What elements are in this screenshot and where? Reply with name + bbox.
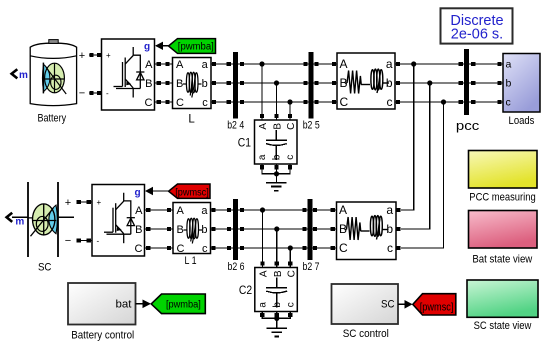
block PCC measuring: [469, 151, 538, 189]
svg-text:A: A: [258, 270, 269, 277]
wire bus b2 7 to branch Z2 phase B: [313, 227, 337, 231]
bus bar b2 4: [227, 52, 244, 131]
svg-text:a: a: [257, 302, 268, 308]
junction node riser-c: [441, 99, 446, 104]
wire battery - to converter: [79, 87, 102, 99]
wire branch Z1 to bus pcc phase a: [395, 62, 464, 66]
svg-text:[pwmsc]: [pwmsc]: [420, 301, 454, 313]
svg-text:Loads: Loads: [509, 115, 535, 127]
port m of Battery (unconnected output arrow): [12, 69, 28, 81]
wire bus b2 5 to branch Z1 phase B: [314, 81, 338, 85]
wire converter2 to L1 phase A: [145, 208, 174, 212]
svg-text:c: c: [506, 97, 511, 109]
junction node C2-C tap: [288, 245, 293, 267]
svg-text:bat: bat: [116, 298, 132, 310]
svg-text:B: B: [145, 78, 152, 90]
svg-text:m: m: [15, 217, 24, 228]
svg-text:-: -: [106, 89, 109, 98]
svg-text:c: c: [202, 243, 208, 255]
svg-text:+: +: [65, 197, 71, 209]
bus bar b2 6: [228, 199, 245, 273]
wire bus b2 4 to bus b2 5 phase A: [238, 62, 309, 66]
block SC state view: [467, 280, 538, 317]
svg-text:Battery control: Battery control: [71, 330, 134, 342]
svg-text:SC: SC: [381, 299, 395, 311]
wire bus b2 6 to bus b2 7 phase B: [238, 227, 308, 231]
wire bus b2 7 to branch Z2 phase A: [313, 208, 337, 212]
svg-text:b2 6: b2 6: [228, 261, 245, 273]
three-phase series RL branch Z1: [337, 53, 395, 109]
svg-text:C1: C1: [238, 138, 251, 150]
wire C2 outputs to ground junction: [260, 312, 292, 329]
svg-text:b: b: [202, 78, 208, 90]
svg-text:a: a: [386, 203, 393, 217]
wire riser from Z2 a: [396, 64, 413, 212]
svg-text:c: c: [285, 302, 296, 307]
wire L1 to bus b2 6 phase a: [211, 208, 234, 212]
block Battery control: [68, 283, 136, 325]
wire C1 outputs to ground junction: [260, 164, 292, 183]
svg-text:A: A: [339, 203, 347, 217]
wire SC - to converter2: [65, 235, 92, 247]
inductor block L: [173, 58, 212, 110]
wire bus b2 5 to branch Z1 phase A: [314, 62, 338, 66]
annotation Discrete 2e-06 s.: [441, 8, 513, 43]
svg-text:g: g: [134, 187, 140, 198]
svg-text:C: C: [340, 95, 349, 109]
svg-text:PCC measuring: PCC measuring: [469, 192, 535, 204]
svg-text:c: c: [387, 95, 393, 109]
svg-text:b: b: [272, 302, 283, 308]
wire bus b2 7 to branch Z2 phase C: [313, 246, 337, 250]
svg-text:[pwmba]: [pwmba]: [166, 299, 201, 311]
svg-text:A: A: [135, 205, 143, 217]
svg-text:a: a: [386, 57, 393, 71]
ground G2: [266, 328, 287, 336]
converter U2 (SC IGBT bridge): [92, 185, 145, 257]
svg-text:a: a: [201, 205, 208, 217]
svg-text:a: a: [257, 154, 268, 160]
wire branch Z1 to bus pcc phase c: [395, 100, 464, 104]
goto tag [pwmsc] from SC control: [398, 294, 456, 315]
wire bus b2 5 to branch Z1 phase C: [314, 100, 338, 104]
svg-text:B: B: [176, 78, 183, 90]
svg-text:a: a: [202, 59, 209, 71]
wire converter2 to L1 phase B: [145, 227, 174, 231]
svg-text:SC: SC: [38, 262, 52, 274]
bus bar pcc: [456, 49, 480, 133]
svg-text:C: C: [177, 243, 185, 255]
from tag [pwmsc] with arrow into g of U2: [145, 184, 210, 198]
junction node riser-a: [411, 61, 416, 66]
svg-text:b: b: [506, 78, 512, 90]
wire bus pcc to Loads phase a: [469, 62, 503, 66]
svg-text:pcc: pcc: [456, 118, 480, 133]
svg-text:SC state view: SC state view: [474, 320, 532, 332]
svg-text:B: B: [273, 123, 284, 130]
wire riser from Z2 b: [396, 83, 430, 231]
svg-text:B: B: [177, 224, 184, 236]
block SC control: [332, 284, 399, 324]
svg-text:A: A: [258, 123, 269, 130]
svg-text:A: A: [176, 59, 184, 71]
wire L to bus b2 4 phase a: [211, 62, 233, 66]
bus bar b2 5: [303, 52, 320, 131]
svg-text:c: c: [285, 155, 296, 160]
junction node C2-B tap: [274, 226, 279, 267]
three-phase series RL branch Z2: [337, 202, 397, 260]
svg-text:b: b: [272, 154, 283, 160]
svg-text:C: C: [176, 97, 184, 109]
svg-text:m: m: [19, 70, 28, 81]
svg-text:C2: C2: [239, 285, 252, 297]
port m of SC (unconnected output arrow): [7, 213, 28, 228]
wire riser from Z2 c: [396, 102, 443, 250]
svg-text:2e-06 s.: 2e-06 s.: [451, 26, 503, 42]
svg-text:+: +: [97, 198, 102, 207]
wire L to bus b2 4 phase b: [211, 81, 233, 85]
wire bus b2 4 to bus b2 5 phase C: [238, 100, 309, 104]
svg-text:c: c: [387, 241, 393, 255]
svg-text:Bat state view: Bat state view: [472, 253, 532, 265]
wire L1 to bus b2 6 phase b: [211, 227, 234, 231]
svg-text:g: g: [144, 41, 150, 52]
svg-text:b2 7: b2 7: [303, 261, 320, 273]
svg-text:L: L: [188, 113, 195, 125]
wire SC + to converter2: [65, 197, 92, 209]
svg-text:[pwmba]: [pwmba]: [178, 42, 214, 53]
battery Battery icon: [30, 40, 76, 106]
junction node riser-b: [427, 80, 432, 85]
svg-text:C: C: [286, 270, 297, 277]
svg-text:−: −: [79, 87, 85, 99]
svg-text:C: C: [145, 97, 153, 109]
junction node C1-C tap: [287, 99, 292, 120]
wire bus b2 6 to bus b2 7 phase C: [238, 246, 308, 250]
from tag [pwmba] with arrow into g: [155, 39, 216, 54]
converter U1 (battery IGBT bridge): [102, 39, 155, 110]
svg-text:C: C: [339, 241, 348, 255]
wire bus b2 4 to bus b2 5 phase B: [238, 81, 309, 85]
inductor block L 1: [173, 203, 211, 255]
svg-text:C: C: [135, 243, 143, 255]
junction node C2-A tap: [260, 207, 265, 267]
wire bus b2 6 to bus b2 7 phase A: [238, 208, 308, 212]
svg-text:C: C: [286, 123, 297, 130]
svg-text:+: +: [79, 50, 85, 62]
wire L to bus b2 4 phase c: [211, 100, 233, 104]
svg-text:+: +: [106, 51, 111, 60]
svg-text:B: B: [135, 224, 142, 236]
ground G1: [266, 183, 287, 191]
wire bus pcc to Loads phase c: [469, 100, 503, 104]
junction node C1-A tap: [259, 61, 264, 120]
capacitor block C2: [255, 268, 297, 312]
supercapacitor SC icon: [28, 182, 74, 257]
svg-text:SC control: SC control: [343, 328, 389, 340]
svg-text:A: A: [340, 57, 348, 71]
wire converter1 to L phase C: [155, 100, 173, 104]
capacitor block C1: [255, 120, 298, 164]
svg-text:L 1: L 1: [185, 255, 197, 267]
svg-text:-: -: [97, 237, 100, 246]
svg-text:b: b: [201, 224, 207, 236]
svg-text:B: B: [273, 270, 284, 277]
svg-text:[pwmsc]: [pwmsc]: [175, 187, 209, 198]
bus bar b2 7: [303, 199, 320, 273]
wire converter1 to L phase B: [155, 81, 173, 85]
wire converter1 to L phase A: [155, 62, 173, 66]
wire branch Z1 to bus pcc phase b: [395, 81, 464, 85]
wire converter2 to L1 phase C: [145, 246, 174, 250]
svg-text:b2 5: b2 5: [303, 119, 320, 131]
goto tag [pwmba] from Battery control: [136, 294, 206, 314]
block Loads: [503, 54, 540, 113]
svg-text:b2 4: b2 4: [227, 119, 244, 131]
wire L1 to bus b2 6 phase c: [211, 246, 234, 250]
junction node C1-B tap: [274, 80, 279, 120]
svg-text:c: c: [202, 97, 208, 109]
svg-text:−: −: [65, 235, 71, 247]
wire battery + to converter: [79, 50, 102, 62]
svg-text:a: a: [506, 59, 512, 71]
svg-text:A: A: [145, 59, 153, 71]
wire bus pcc to Loads phase b: [469, 81, 503, 85]
svg-text:Battery: Battery: [38, 112, 67, 124]
block Bat state view: [469, 211, 538, 249]
svg-text:A: A: [177, 205, 185, 217]
